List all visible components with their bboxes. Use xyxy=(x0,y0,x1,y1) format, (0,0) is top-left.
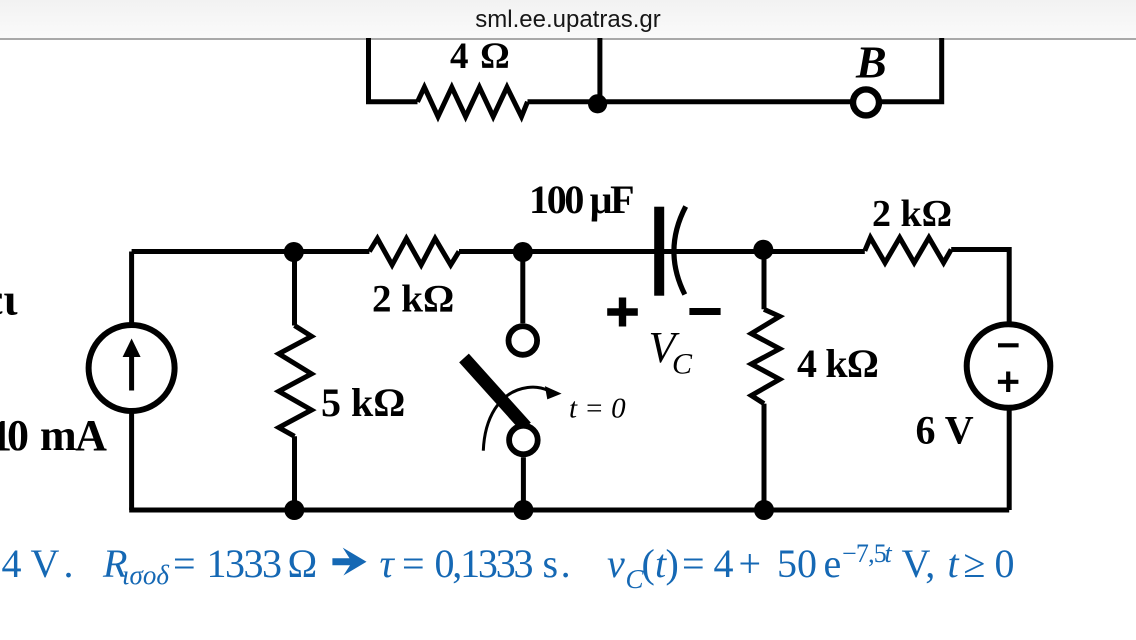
wire: switch column top xyxy=(520,252,525,324)
wire: bottom horizontal xyxy=(129,508,1009,513)
capacitor C 100uF left plate xyxy=(654,207,664,296)
wire: 4k column top xyxy=(762,250,767,309)
plus sign inside voltage source xyxy=(998,372,1019,393)
wire: 5k column bottom xyxy=(292,436,297,510)
junction dot bottom of 4k xyxy=(754,500,774,520)
wire: main left vertical lower xyxy=(129,413,134,510)
current source I1 circle xyxy=(89,325,175,411)
svg-text:2 kΩ: 2 kΩ xyxy=(872,193,952,235)
plus sign of capacitor polarity xyxy=(607,298,638,327)
terminal B open circle xyxy=(853,89,879,115)
wire: switch column bottom xyxy=(521,457,526,510)
switch top contact circle xyxy=(509,326,538,355)
junction dot bottom of 5k xyxy=(284,500,304,520)
resistor R 4kohm xyxy=(751,309,779,403)
svg-text:6 V: 6 V xyxy=(916,407,974,452)
resistor R 5kohm xyxy=(279,326,312,437)
wire: main top-right to corner and down xyxy=(951,250,1009,322)
svg-text:100 μF: 100 μF xyxy=(529,177,633,222)
svg-text:4 Ω: 4 Ω xyxy=(450,36,511,77)
wire: top-circuit center vertical drop xyxy=(597,38,602,99)
svg-text:10mA: 10mA xyxy=(0,411,107,460)
svg-text:t = 0: t = 0 xyxy=(569,393,626,425)
junction dot top of switch xyxy=(513,242,533,262)
junction dot top of 5k xyxy=(284,242,304,262)
wire: top-circuit horizontal to node B xyxy=(528,99,854,104)
svg-text:5 kΩ: 5 kΩ xyxy=(321,380,405,425)
voltage source V1 circle xyxy=(967,324,1051,408)
junction dot top circuit xyxy=(588,94,607,113)
switch bottom contact circle xyxy=(509,426,538,455)
switch lever bar xyxy=(464,358,526,427)
minus sign of capacitor polarity xyxy=(689,308,720,315)
junction dot bottom of switch xyxy=(513,500,533,520)
wire: 5k column top xyxy=(292,252,297,326)
wire: top-circuit left vertical and stub xyxy=(369,38,418,102)
wire: main top middle through capacitor xyxy=(459,249,865,254)
blue bold arrow glyph xyxy=(332,548,366,576)
svg-text:B: B xyxy=(855,37,887,88)
wire: node B to top-right corner xyxy=(879,38,942,102)
svg-text:C: C xyxy=(672,347,693,380)
switch motion arc xyxy=(483,387,548,451)
resistor R 2kohm right xyxy=(865,238,951,263)
switch arc arrowhead xyxy=(545,386,562,399)
junction dot top of 4k xyxy=(753,240,773,260)
capacitor C 100uF right curved plate xyxy=(674,207,686,295)
wire: main left vertical upper xyxy=(129,252,134,324)
minus sign inside voltage source xyxy=(998,343,1019,347)
wire: 4k column bottom xyxy=(762,404,767,510)
wire: main top-left horizontal xyxy=(132,249,370,254)
svg-text:4 V . R ισοδ = 1333 Ω τ = 0,13: 4 V . R ισοδ = 1333 Ω τ = 0,1333 s. v C … xyxy=(2,526,1015,597)
svg-text:ει: ει xyxy=(0,274,18,325)
resistor R 4ohm xyxy=(418,87,528,116)
resistor R 2kohm left xyxy=(369,239,459,265)
wire: voltage source to bottom wire xyxy=(1007,410,1012,510)
svg-text:2 kΩ: 2 kΩ xyxy=(372,278,454,321)
arrow inside current source xyxy=(129,357,134,391)
svg-text:4 kΩ: 4 kΩ xyxy=(797,341,878,386)
